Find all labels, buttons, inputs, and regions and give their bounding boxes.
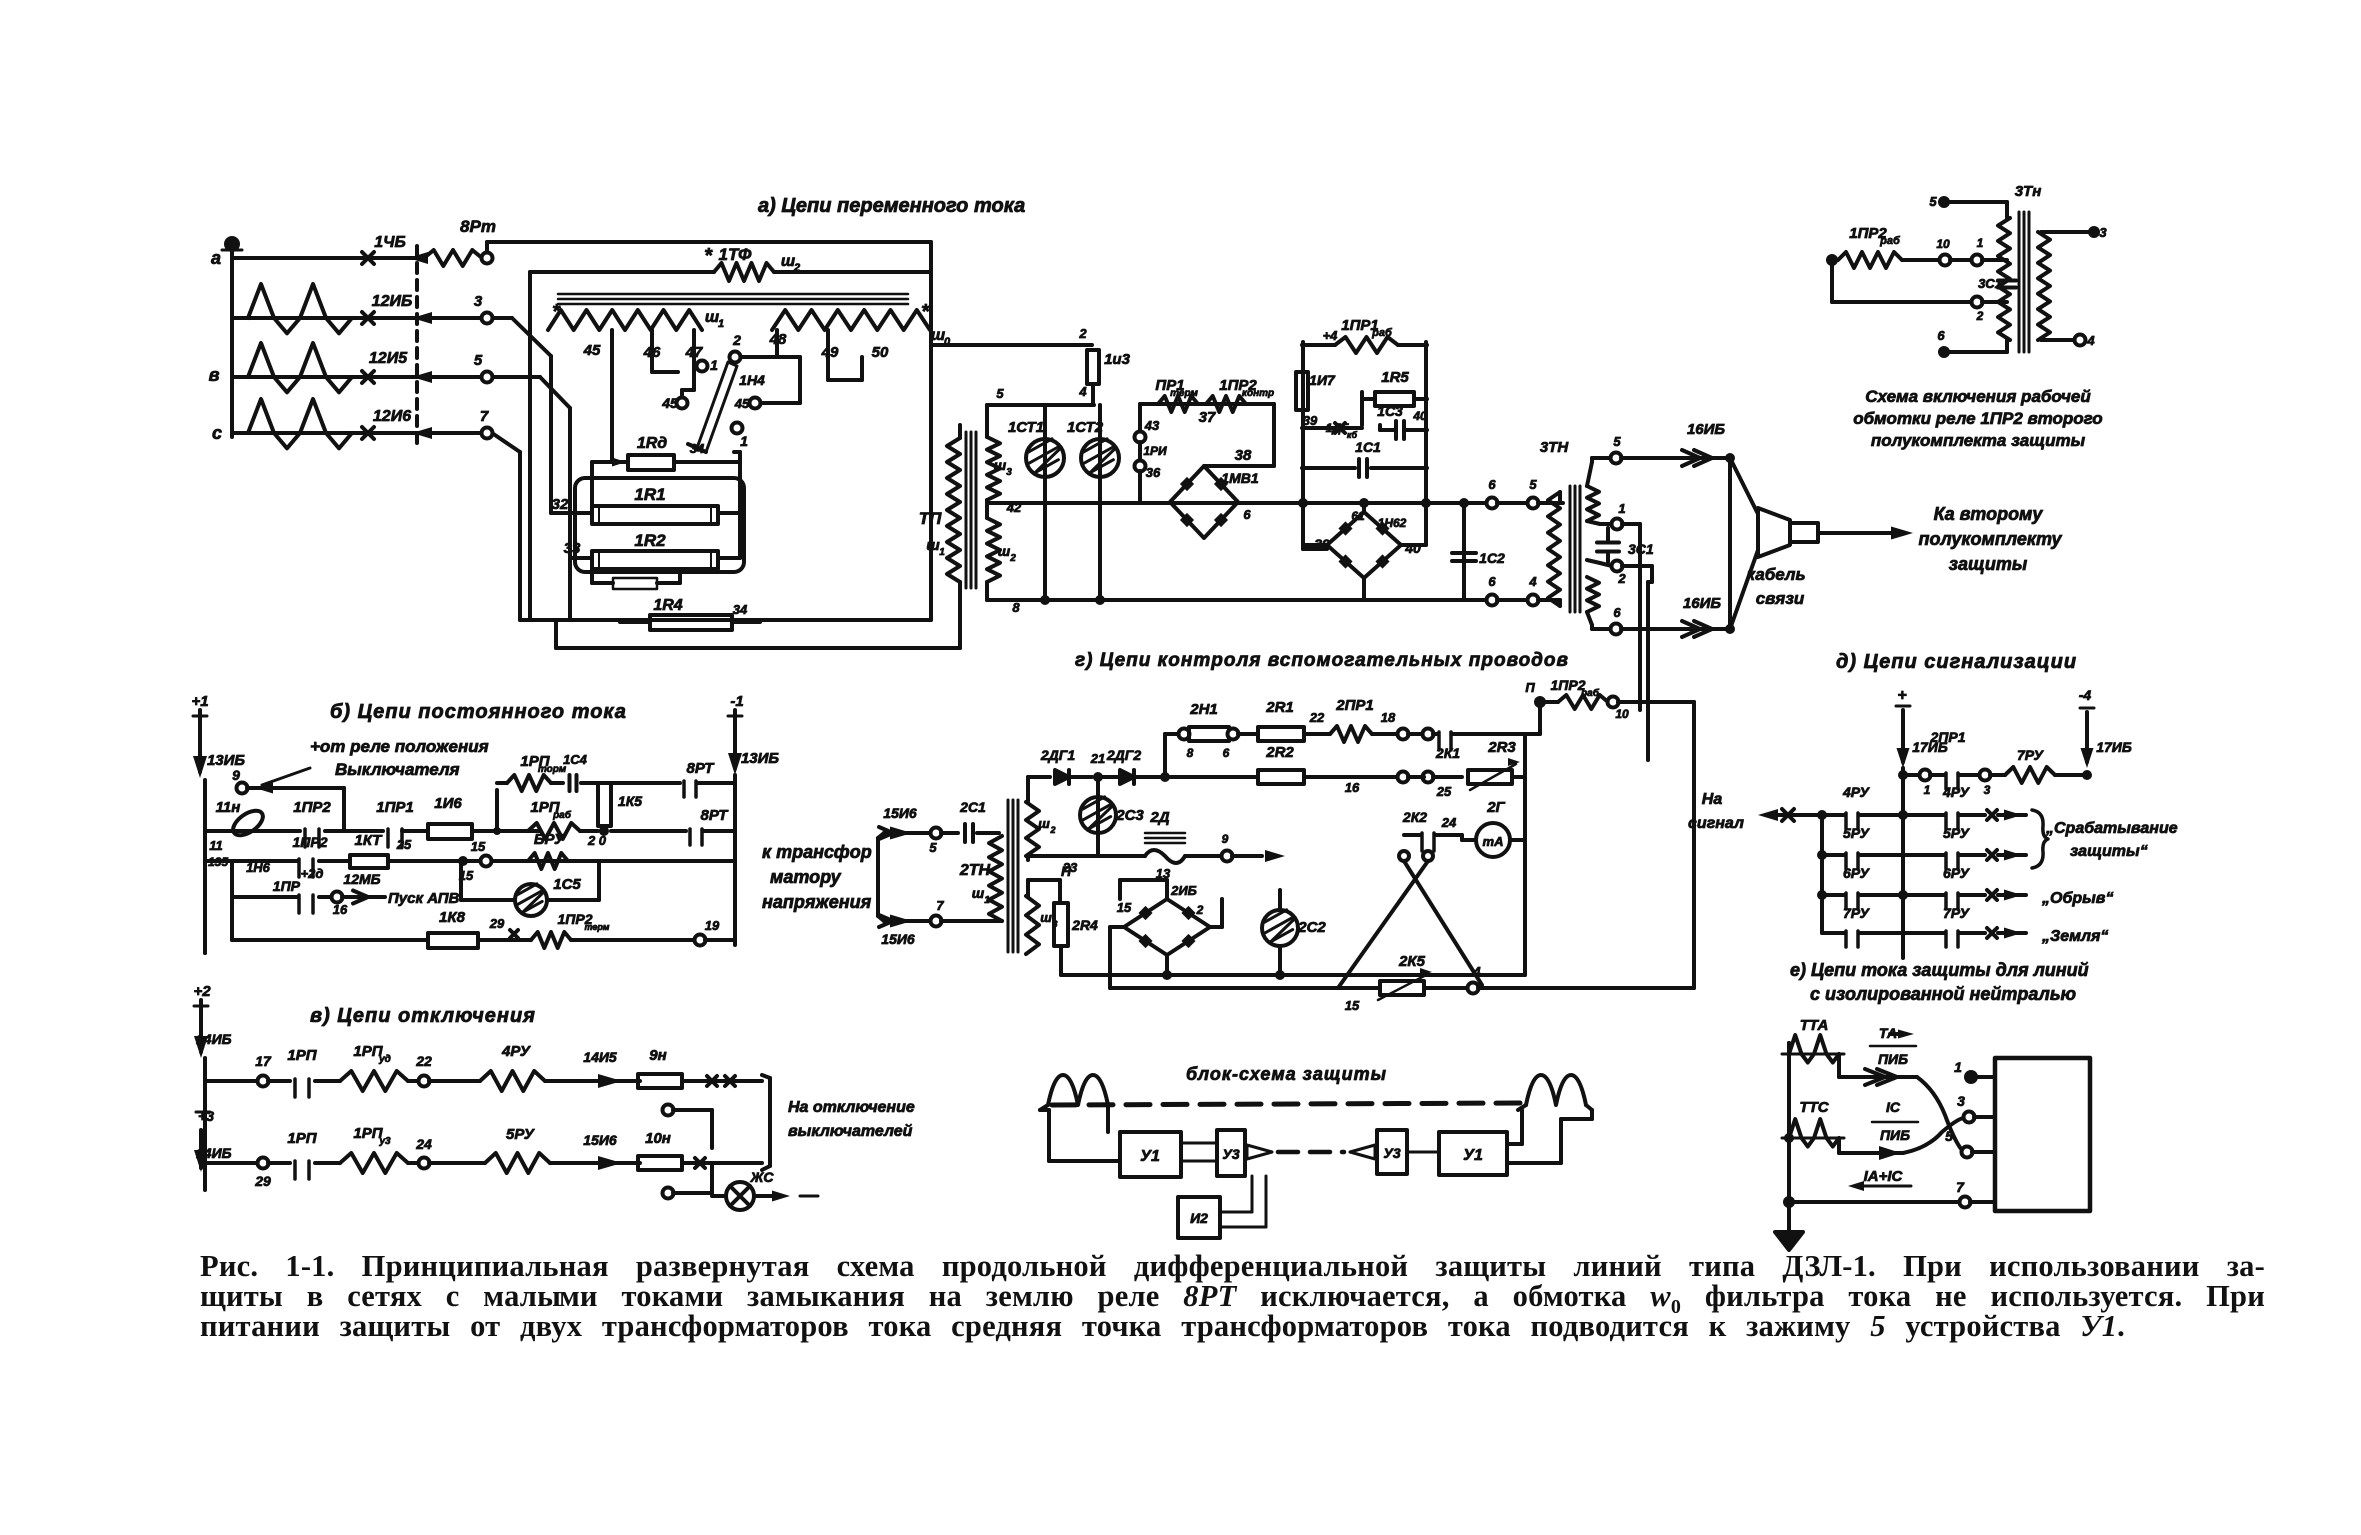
svg-text:1R1: 1R1 xyxy=(634,485,665,504)
svg-text:22: 22 xyxy=(415,1053,432,1069)
frame around resistor block xyxy=(575,478,744,572)
svg-text:39: 39 xyxy=(1303,413,1318,428)
figure caption line 3 xyxy=(200,1311,2125,1361)
svg-text:2С1: 2С1 xyxy=(959,799,986,815)
svg-text:12И5: 12И5 xyxy=(369,350,408,367)
lamp 1С5 xyxy=(515,884,547,916)
box ПР терм left edge xyxy=(1138,404,1142,432)
dashed link top xyxy=(1052,1103,1527,1105)
svg-text:8: 8 xyxy=(1187,746,1194,760)
svg-text:ЖС: ЖС xyxy=(750,1169,775,1185)
svg-text:-4: -4 xyxy=(2079,687,2092,703)
svg-text:На отключение: На отключение xyxy=(788,1099,915,1116)
g row 856 xyxy=(1028,854,1145,858)
tap circle 45 left xyxy=(677,398,688,409)
svg-text:2R3: 2R3 xyxy=(1487,739,1516,756)
svg-text:11н: 11н xyxy=(216,799,241,816)
svg-text:1РП: 1РП xyxy=(287,1130,317,1147)
2ТН right winding upper xyxy=(1026,802,1039,856)
bottom bus right part xyxy=(1364,598,1487,602)
svg-text:7РУ: 7РУ xyxy=(1843,905,1871,921)
wire ТП to stabilitron box top xyxy=(987,403,1094,407)
svg-text:45: 45 xyxy=(661,395,678,411)
g right vertical xyxy=(1523,734,1527,975)
svg-text:16ИБ: 16ИБ xyxy=(1687,421,1725,438)
svg-text:17: 17 xyxy=(255,1053,272,1069)
svg-text:16ИБ: 16ИБ xyxy=(1683,595,1721,612)
svg-text:+: + xyxy=(1897,687,1906,704)
svg-text:6: 6 xyxy=(1488,574,1496,589)
svg-text:„Земля“: „Земля“ xyxy=(2041,928,2108,945)
wire from circle 3 diagonal xyxy=(492,316,512,320)
svg-text:2R1: 2R1 xyxy=(1265,699,1294,716)
svg-text:11: 11 xyxy=(209,838,223,853)
svg-text:терм: терм xyxy=(585,922,610,932)
svg-text:1С5: 1С5 xyxy=(553,876,581,893)
wire v2 to bracket xyxy=(730,1161,762,1165)
svg-text:ш: ш xyxy=(1038,816,1050,831)
block left loop xyxy=(1040,1108,1049,1112)
bridge 1Н62 xyxy=(1327,512,1401,578)
svg-text:2К5: 2К5 xyxy=(1398,953,1426,970)
tap wire 45 down xyxy=(610,330,614,455)
svg-text:14ИБ: 14ИБ xyxy=(196,1145,232,1161)
g bottom row 988 xyxy=(1124,986,1380,990)
g wire up to 2Н1 row xyxy=(1163,734,1167,777)
relay box 1ПР1раб left edge xyxy=(1301,342,1305,549)
svg-text:1С3: 1С3 xyxy=(1377,403,1403,419)
wire lamp right xyxy=(547,898,599,902)
svg-text:напряжения: напряжения xyxy=(762,892,872,912)
svg-text:„Обрыв“: „Обрыв“ xyxy=(2041,890,2113,907)
terminal 19 row5 xyxy=(695,935,706,946)
terminal circle 7 xyxy=(482,428,493,439)
svg-text:2ДГ2: 2ДГ2 xyxy=(1106,747,1141,763)
svg-text:1R2: 1R2 xyxy=(634,531,666,550)
resistor 1К5 vertical xyxy=(598,783,611,826)
bottom bus of section a lower xyxy=(556,646,951,650)
block И2 links xyxy=(1220,1211,1252,1214)
terminals 6 4 bottom xyxy=(1487,595,1498,606)
transformer ТП right winding upper xyxy=(987,437,1000,500)
wire row b4 xyxy=(230,861,234,897)
tap wire 49 down xyxy=(826,330,830,380)
svg-text:8Рт: 8Рт xyxy=(460,217,496,236)
svg-text:2: 2 xyxy=(1976,309,1984,323)
svg-text:15: 15 xyxy=(1117,900,1132,915)
box ПР терм top xyxy=(1140,402,1274,406)
bus left vertical xyxy=(230,240,234,437)
svg-text:8РТ: 8РТ xyxy=(701,807,730,824)
arrow 13ИБ right xyxy=(733,724,737,768)
svg-text:2R2: 2R2 xyxy=(1265,744,1294,761)
svg-text:1С2: 1С2 xyxy=(1479,550,1505,566)
svg-text:2С2: 2С2 xyxy=(1297,919,1326,936)
svg-text:5: 5 xyxy=(929,840,937,855)
svg-text:1: 1 xyxy=(740,433,748,449)
wire row b1 xyxy=(232,829,300,833)
svg-text:5: 5 xyxy=(1529,477,1537,492)
wire 2К2 to 2Г xyxy=(1452,833,1462,837)
branch 15 down to lamp xyxy=(459,861,463,900)
svg-text:1: 1 xyxy=(1924,783,1931,797)
terminal 4 g xyxy=(1468,983,1479,994)
junction to upper branch xyxy=(493,827,501,835)
device box У1 е xyxy=(1995,1058,2090,1211)
svg-text:ш: ш xyxy=(994,457,1007,473)
mini core xyxy=(2018,212,2021,352)
svg-text:1: 1 xyxy=(1618,501,1625,516)
cable funnel xyxy=(1730,458,1758,514)
svg-text:1СТ1: 1СТ1 xyxy=(1008,419,1044,436)
svg-text:+от реле положения: +от реле положения xyxy=(310,737,489,756)
svg-text:2ДГ1: 2ДГ1 xyxy=(1040,747,1075,763)
wire ТП bottom to bus xyxy=(985,582,989,600)
wire from circle 7 xyxy=(492,433,520,452)
svg-text:П: П xyxy=(1525,680,1535,695)
bus в left xyxy=(203,1058,207,1190)
bridge 1МВ1 xyxy=(1170,466,1238,538)
wire outer box top xyxy=(485,242,489,252)
svg-text:терм: терм xyxy=(1170,388,1198,399)
wire phase row 4 xyxy=(232,431,487,435)
svg-text:2К1: 2К1 xyxy=(1435,745,1460,761)
3ТН right winding upper xyxy=(1587,486,1599,521)
svg-text:8: 8 xyxy=(1012,600,1020,615)
svg-text:ТТС: ТТС xyxy=(1799,1099,1829,1116)
svg-text:5: 5 xyxy=(1929,194,1937,209)
svg-text:ш: ш xyxy=(926,537,940,554)
svg-text:18: 18 xyxy=(1381,710,1396,725)
svg-text:4РУ: 4РУ xyxy=(1942,784,1971,800)
terminal circle 3 xyxy=(482,313,493,324)
svg-text:ТТА: ТТА xyxy=(1800,1017,1829,1034)
switch lever xyxy=(697,362,737,452)
bus through box xyxy=(1302,501,1487,505)
svg-text:45: 45 xyxy=(583,342,601,359)
svg-text:1К8: 1К8 xyxy=(439,909,466,926)
relay box 1ПР1раб right edge xyxy=(1424,342,1428,545)
lamp 2С3 xyxy=(1096,777,1100,856)
2ТН left winding xyxy=(989,836,1002,921)
svg-text:1И7: 1И7 xyxy=(1309,372,1336,388)
svg-text:На: На xyxy=(1702,791,1723,808)
arrow 14ИБ top xyxy=(199,1013,203,1052)
svg-text:сигнал: сигнал xyxy=(1688,815,1744,832)
svg-text:5РУ: 5РУ xyxy=(506,1126,536,1143)
svg-text:полукомплекта защиты: полукомплекта защиты xyxy=(1871,431,2086,450)
row d0 xyxy=(1901,768,1905,775)
svg-text:в: в xyxy=(209,365,220,385)
svg-text:15И6: 15И6 xyxy=(881,931,915,947)
capacitor 3С1 main xyxy=(1606,528,1610,542)
svg-text:а: а xyxy=(211,248,221,268)
bridge 2МБ connections xyxy=(1110,925,1124,929)
wire row b3 xyxy=(205,859,300,863)
svg-text:14И5: 14И5 xyxy=(583,1049,617,1065)
svg-text:защиты“: защиты“ xyxy=(2070,843,2148,860)
arrow на сигнал xyxy=(1758,809,1778,821)
svg-text:2R4: 2R4 xyxy=(1071,917,1098,933)
svg-text:36: 36 xyxy=(1146,465,1161,480)
svg-text:25: 25 xyxy=(1436,784,1452,799)
svg-text:4: 4 xyxy=(2086,333,2095,348)
svg-text:45: 45 xyxy=(734,396,750,411)
block У3 left xyxy=(1217,1130,1245,1176)
svg-text:33: 33 xyxy=(564,540,581,557)
2ТН right winding lower xyxy=(1026,896,1039,954)
svg-text:21: 21 xyxy=(1090,751,1105,766)
wire row b2 right xyxy=(497,829,540,833)
svg-text:тА: тА xyxy=(1483,834,1504,849)
svg-text:29: 29 xyxy=(489,916,505,931)
wires taps 1 2 down xyxy=(1638,524,1642,702)
svg-text:У3: У3 xyxy=(1383,1145,1400,1161)
bus d mid xyxy=(1901,775,1905,958)
right collector vertical xyxy=(738,452,742,558)
transformer ТП left winding xyxy=(947,438,960,582)
svg-text:контр: контр xyxy=(1242,388,1274,399)
svg-text:2: 2 xyxy=(732,332,741,348)
svg-text:полукомплекту: полукомплекту xyxy=(1918,529,2062,549)
svg-text:6: 6 xyxy=(1937,328,1945,343)
svg-text:ПИБ: ПИБ xyxy=(1880,1127,1910,1143)
wire phase row 2 xyxy=(232,316,487,320)
block arrows middle xyxy=(1247,1145,1272,1159)
svg-text:обмотки реле 1ПР2 второго: обмотки реле 1ПР2 второго xyxy=(1853,409,2102,428)
block У3 right xyxy=(1377,1130,1407,1174)
g upper loop top wire xyxy=(1026,777,1030,802)
open circle branch v2 xyxy=(663,1188,674,1199)
svg-text:5РУ: 5РУ xyxy=(1843,825,1871,841)
fuse 1И7 xyxy=(1296,372,1308,410)
svg-text:1и3: 1и3 xyxy=(1104,351,1131,368)
svg-text:3: 3 xyxy=(1957,1093,1965,1109)
svg-text:1МВ1: 1МВ1 xyxy=(1221,470,1259,486)
arrow 13ИБ left xyxy=(198,724,202,772)
svg-text:3: 3 xyxy=(1006,467,1012,478)
ground е xyxy=(1787,1202,1791,1232)
svg-text:„Срабатывание: „Срабатывание xyxy=(2045,820,2178,837)
svg-text:кабель: кабель xyxy=(1746,565,1805,584)
svg-text:12МБ: 12МБ xyxy=(343,871,380,887)
svg-text:+2: +2 xyxy=(193,983,211,1000)
svg-text:ш: ш xyxy=(972,885,985,901)
CT winding phase a xyxy=(248,284,352,333)
svg-text:13ИБ: 13ИБ xyxy=(741,750,779,767)
svg-text:+1: +1 xyxy=(191,693,208,710)
svg-text:19: 19 xyxy=(705,918,720,933)
bottom bus of section a upper xyxy=(520,618,931,622)
svg-text:к трансфор: к трансфор xyxy=(762,842,872,862)
wire phase row 1 xyxy=(232,256,420,260)
contacts right g 777 xyxy=(1398,772,1409,783)
svg-text:блок-схема защиты: блок-схема защиты xyxy=(1186,1064,1387,1084)
svg-text:7: 7 xyxy=(936,898,944,913)
CT winding phase b xyxy=(248,343,352,392)
svg-text:29: 29 xyxy=(254,1173,271,1189)
svg-text:16: 16 xyxy=(1345,780,1360,795)
terminal 5 е xyxy=(1962,1147,1973,1158)
open circle branch v1 xyxy=(663,1105,674,1116)
svg-text:ІА+ІС: ІА+ІС xyxy=(1864,1168,1904,1185)
svg-text:1R5: 1R5 xyxy=(1381,369,1409,386)
svg-text:раб: раб xyxy=(552,809,572,821)
svg-text:И2: И2 xyxy=(1190,1210,1208,1226)
svg-text:в) Цепи отключения: в) Цепи отключения xyxy=(310,1005,536,1027)
svg-text:22: 22 xyxy=(1309,710,1325,725)
svg-text:7РУ: 7РУ xyxy=(2017,747,2045,763)
mini output 3 xyxy=(2041,230,2090,234)
mini right winding xyxy=(2038,232,2050,340)
arrow 17ИБ left xyxy=(1901,710,1905,762)
wire ТТА row xyxy=(1787,1043,1791,1054)
lamp 2С2 xyxy=(1262,910,1298,946)
svg-text:5: 5 xyxy=(1945,1128,1953,1144)
bracket в xyxy=(762,1075,770,1078)
svg-text:5: 5 xyxy=(1613,434,1621,449)
svg-text:6: 6 xyxy=(1613,605,1621,620)
svg-text:40: 40 xyxy=(1412,409,1427,423)
block И2 box xyxy=(1178,1197,1220,1238)
svg-text:1: 1 xyxy=(939,547,945,558)
svg-text:7РУ: 7РУ xyxy=(1943,905,1971,921)
svg-text:7: 7 xyxy=(1956,1179,1965,1195)
svg-text:12ИБ: 12ИБ xyxy=(372,293,413,310)
svg-text:1R4: 1R4 xyxy=(653,597,682,614)
svg-text:38: 38 xyxy=(1235,447,1252,464)
cable junction right vertical xyxy=(1728,458,1732,629)
svg-text:б) Цепи постоянного тока: б) Цепи постоянного тока xyxy=(330,701,627,723)
svg-text:5: 5 xyxy=(996,386,1004,401)
svg-text:ш: ш xyxy=(1040,910,1052,925)
svg-text:1ПР: 1ПР xyxy=(273,878,301,894)
wire row b5 xyxy=(230,892,234,940)
g row 777 right xyxy=(1165,775,1258,779)
brace signaling xyxy=(2032,810,2048,868)
3ТН tap 2 xyxy=(1587,560,1600,563)
terminal 7 g xyxy=(931,916,942,927)
svg-text:6РУ: 6РУ xyxy=(1943,865,1971,881)
mini tap 1 xyxy=(1972,255,1983,266)
svg-text:Пуск АПВ: Пуск АПВ xyxy=(388,890,459,907)
svg-text:9: 9 xyxy=(1222,832,1229,846)
block У1 left xyxy=(1120,1132,1181,1177)
svg-text:1ПР2: 1ПР2 xyxy=(293,834,328,850)
svg-text:3Тн: 3Тн xyxy=(2015,183,2042,200)
svg-text:ПИБ: ПИБ xyxy=(1878,1051,1908,1067)
bottom row е xyxy=(1783,1196,1795,1208)
svg-text:24: 24 xyxy=(1441,815,1457,830)
wire inner box left xyxy=(528,272,532,620)
bus б left xyxy=(203,780,207,953)
svg-text:с изолированной нейтралью: с изолированной нейтралью xyxy=(1810,984,2076,1004)
svg-text:7: 7 xyxy=(480,408,489,425)
svg-text:2К2: 2К2 xyxy=(1402,809,1427,825)
svg-text:Выключателя: Выключателя xyxy=(335,760,460,779)
svg-text:37: 37 xyxy=(1199,409,1216,426)
block right loop xyxy=(1507,1142,1522,1146)
tap wire 46 down xyxy=(650,330,654,372)
wire from circle 5 xyxy=(492,375,540,379)
svg-text:5: 5 xyxy=(474,352,483,369)
svg-text:1Rд: 1Rд xyxy=(637,435,667,452)
svg-text:2ПР1: 2ПР1 xyxy=(1335,697,1373,714)
svg-text:34: 34 xyxy=(690,441,705,456)
arrowheads into dashed bus xyxy=(408,252,428,264)
svg-text:2: 2 xyxy=(1009,553,1016,564)
svg-text:1ПР1: 1ПР1 xyxy=(376,799,413,816)
3ТН core xyxy=(1569,486,1572,612)
svg-text:1: 1 xyxy=(1954,1059,1962,1075)
svg-text:выключателей: выключателей xyxy=(788,1123,913,1140)
wire phase row 3 xyxy=(232,375,487,379)
3ТН tap 5 xyxy=(1587,462,1592,486)
bus б right xyxy=(733,775,737,945)
tap wire 48 down xyxy=(775,330,779,357)
svg-text:6РУ: 6РУ xyxy=(1843,865,1871,881)
svg-text:2: 2 xyxy=(1078,326,1087,341)
mini output 4 xyxy=(2041,338,2075,342)
figure caption xyxy=(200,1251,2265,1381)
svg-text:с: с xyxy=(212,423,222,443)
box ПР терм right edge xyxy=(1272,404,1276,466)
svg-text:у3: у3 xyxy=(378,1136,391,1147)
svg-text:15: 15 xyxy=(1345,998,1360,1013)
svg-text:уд: уд xyxy=(378,1054,391,1065)
cross marks on phase wires xyxy=(362,252,374,264)
bracket g left xyxy=(878,833,884,838)
svg-text:43: 43 xyxy=(1144,418,1160,433)
svg-text:15: 15 xyxy=(471,839,486,854)
svg-text:24: 24 xyxy=(415,1136,432,1152)
svg-text:6: 6 xyxy=(1488,477,1496,492)
svg-text:1С1: 1С1 xyxy=(1355,439,1381,455)
svg-text:1ЧБ: 1ЧБ xyxy=(374,234,406,251)
terminal 1 е xyxy=(1964,1070,1978,1084)
svg-text:+4: +4 xyxy=(1323,328,1339,343)
terminals 6 5 top xyxy=(1487,498,1498,509)
svg-text:связи: связи xyxy=(1756,589,1805,608)
svg-text:15И6: 15И6 xyxy=(883,805,917,821)
svg-text:17ИБ: 17ИБ xyxy=(2096,739,2132,755)
svg-text:а) Цепи переменного тока: а) Цепи переменного тока xyxy=(758,195,1025,217)
block У1 right xyxy=(1439,1132,1507,1175)
svg-text:14ИБ: 14ИБ xyxy=(196,1031,232,1047)
bus through bridge xyxy=(987,501,1170,505)
svg-text:16: 16 xyxy=(333,902,348,917)
bridge 2МБ xyxy=(1124,899,1210,955)
terminal 3 е xyxy=(1964,1112,1975,1123)
svg-text:2Г: 2Г xyxy=(1486,799,1505,816)
svg-text:1Н4: 1Н4 xyxy=(739,372,765,388)
svg-text:34: 34 xyxy=(733,602,748,617)
svg-text:раб: раб xyxy=(1879,235,1901,247)
filter 1ТФ top winding w2 xyxy=(530,270,714,274)
g left lower vertical xyxy=(1110,986,1124,990)
svg-text:1С4: 1С4 xyxy=(563,752,588,767)
svg-text:10: 10 xyxy=(1936,237,1950,251)
contact 2К1 row xyxy=(1398,729,1409,740)
block link У1-У3 xyxy=(1181,1142,1217,1145)
arrow пуск АПВ xyxy=(332,892,343,903)
wire row v2 xyxy=(205,1161,258,1165)
svg-text:32: 32 xyxy=(552,496,569,513)
wire 2ТН upper bottom xyxy=(1026,856,1030,860)
svg-text:50: 50 xyxy=(872,344,889,361)
svg-text:5РУ: 5РУ xyxy=(1943,825,1971,841)
mini tap 2 xyxy=(1830,260,1834,302)
